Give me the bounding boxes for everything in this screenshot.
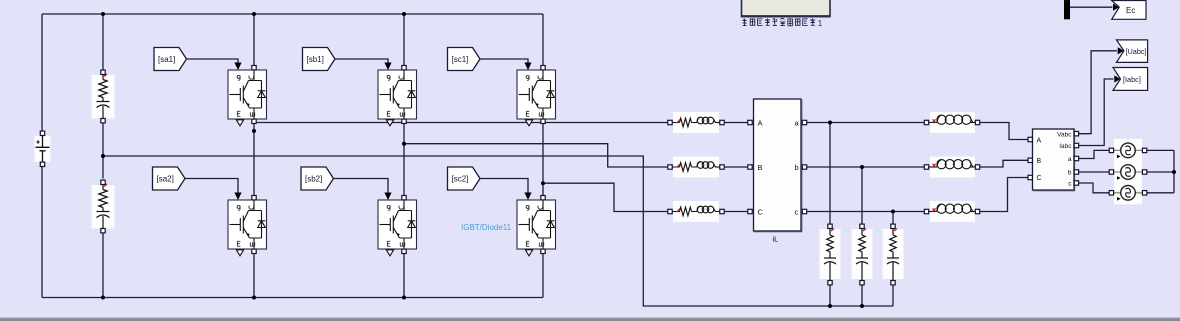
svg-text:C: C	[758, 207, 764, 216]
svg-text:B: B	[1037, 158, 1042, 165]
svg-text:[sb1]: [sb1]	[307, 55, 324, 64]
svg-text:c: c	[795, 207, 799, 216]
svg-text:[sb2]: [sb2]	[305, 175, 322, 184]
svg-text:1: 1	[818, 19, 823, 28]
svg-text:iL: iL	[773, 235, 779, 244]
svg-text:[sc2]: [sc2]	[452, 175, 469, 184]
svg-text:IGBT/Diode11: IGBT/Diode11	[461, 223, 512, 232]
svg-text:b: b	[795, 163, 799, 172]
svg-text:A: A	[758, 118, 763, 127]
svg-text:[sa1]: [sa1]	[158, 55, 175, 64]
svg-text:[Iabc]: [Iabc]	[1123, 75, 1141, 84]
svg-text:C: C	[1037, 175, 1042, 182]
svg-text:A: A	[1037, 137, 1042, 144]
svg-text:Vabc: Vabc	[1057, 131, 1072, 138]
svg-text:Ec: Ec	[1126, 6, 1135, 15]
svg-text:b: b	[1068, 170, 1072, 177]
svg-text:B: B	[758, 163, 763, 172]
svg-text:Iabc: Iabc	[1059, 143, 1072, 150]
svg-text:[sc1]: [sc1]	[452, 55, 469, 64]
svg-text:[sa2]: [sa2]	[157, 175, 174, 184]
svg-text:[Uabc]: [Uabc]	[1126, 47, 1147, 56]
svg-text:a: a	[1068, 156, 1072, 163]
